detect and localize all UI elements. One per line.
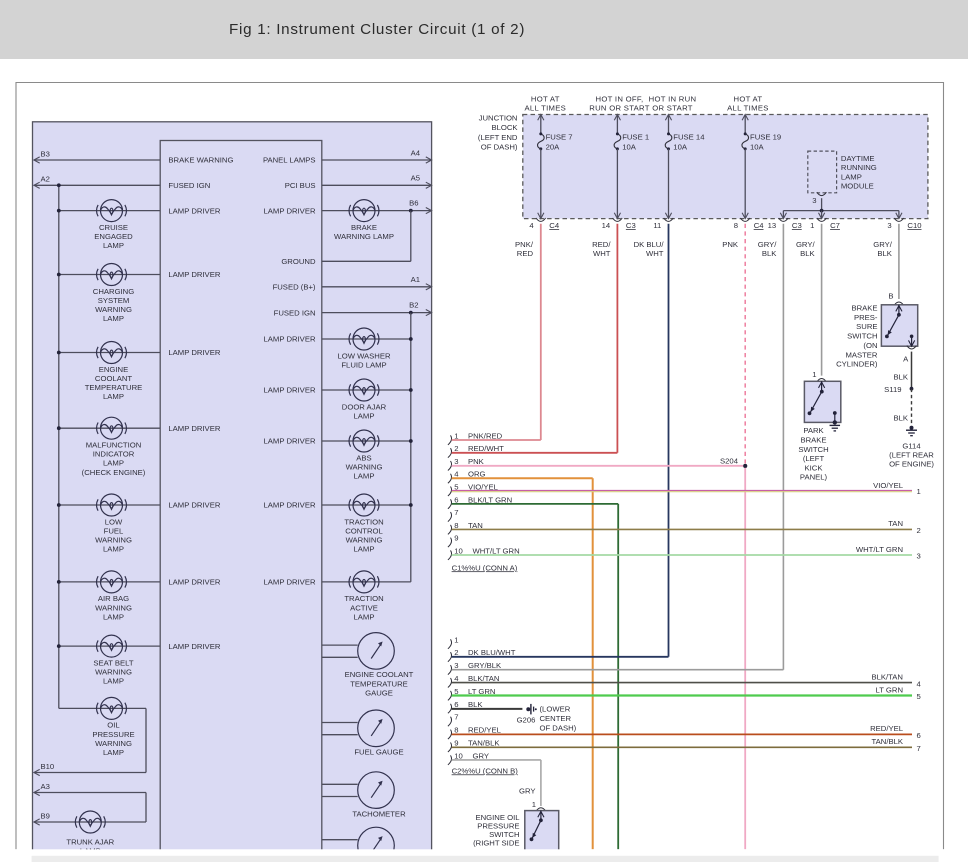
lamp LOW WASHER FLUID LAMP: [349, 328, 379, 350]
junction A2 bus: [57, 183, 61, 187]
svg-text:SWITCH: SWITCH: [847, 332, 877, 341]
C1 pin 3 PNK: [448, 461, 452, 471]
svg-text:GRY/: GRY/: [758, 240, 778, 249]
svg-text:HOT IN OFF,: HOT IN OFF,: [595, 94, 643, 103]
svg-text:G114: G114: [902, 441, 921, 450]
lamp ABS WARNING LAMP: [349, 430, 379, 452]
svg-text:LAMP DRIVER: LAMP DRIVER: [168, 642, 220, 651]
svg-text:3: 3: [454, 661, 458, 670]
wire to LOW WASHER FLUID LAMP: [322, 338, 411, 340]
svg-text:PANEL): PANEL): [800, 473, 828, 482]
svg-text:4: 4: [529, 221, 534, 230]
svg-text:1: 1: [454, 635, 458, 644]
daytime running lamp module: [808, 151, 837, 193]
wire A2 fused ign: [34, 184, 160, 186]
svg-text:6: 6: [454, 700, 458, 709]
connector pin 11: [664, 218, 674, 221]
svg-text:A3: A3: [41, 782, 50, 791]
svg-text:OF DASH): OF DASH): [540, 723, 577, 732]
svg-text:DK BLU/WHT: DK BLU/WHT: [468, 648, 516, 657]
wire to ENGINE COOLANT TEMPERATURE LAMP: [59, 352, 160, 354]
wire B3 brake warning: [34, 159, 160, 161]
right lamp bus: [410, 313, 412, 582]
svg-text:7: 7: [917, 744, 921, 753]
svg-text:CRUISE: CRUISE: [99, 223, 128, 232]
svg-text:LAMP DRIVER: LAMP DRIVER: [264, 386, 316, 395]
svg-text:LAMP DRIVER: LAMP DRIVER: [168, 424, 220, 433]
wire C2-3 GRY/BLK: [452, 669, 784, 671]
lamp MALFUNCTION INDICATOR LAMP (CHECK ENGINE): [97, 417, 127, 439]
svg-text:ACTIVE: ACTIVE: [350, 603, 378, 612]
wire C1-4 ORG: [452, 477, 593, 479]
svg-text:FUSE 19: FUSE 19: [750, 133, 781, 142]
svg-text:LAMP: LAMP: [354, 411, 375, 420]
wire to TRACTION ACTIVE LAMP: [322, 581, 411, 583]
svg-text:LAMP DRIVER: LAMP DRIVER: [264, 335, 316, 344]
wire GRY drop to oil pressure switch: [540, 760, 542, 806]
svg-text:WHT: WHT: [646, 249, 664, 258]
svg-text:RED/: RED/: [592, 240, 611, 249]
svg-text:9: 9: [454, 739, 458, 748]
wire C2-8 RED/YEL: [452, 733, 912, 735]
svg-text:C7: C7: [830, 221, 840, 230]
svg-text:6: 6: [917, 731, 921, 740]
svg-text:BLOCK: BLOCK: [491, 123, 518, 132]
C1 pin 4 ORG: [448, 474, 452, 484]
svg-text:LAMP: LAMP: [103, 612, 124, 621]
svg-text:BLK/TAN: BLK/TAN: [468, 674, 499, 683]
connector pin 14: [613, 218, 623, 221]
fuse FUSE 19 10A: [744, 115, 746, 134]
svg-text:8: 8: [454, 726, 458, 735]
wire C2-2 DK BLU/WHT: [452, 656, 669, 658]
svg-text:WARNING LAMP: WARNING LAMP: [334, 232, 394, 241]
svg-text:RUNNING: RUNNING: [841, 163, 877, 172]
svg-text:HOT AT: HOT AT: [733, 94, 762, 103]
svg-text:ENGINE COOLANT: ENGINE COOLANT: [345, 670, 414, 679]
svg-text:LAMP DRIVER: LAMP DRIVER: [168, 348, 220, 357]
wire C2-4 BLK/TAN: [452, 682, 912, 684]
svg-text:HOT IN RUN: HOT IN RUN: [649, 94, 697, 103]
C2 pin 3 GRY/BLK: [448, 665, 452, 675]
wire A5 pci bus: [322, 184, 432, 186]
svg-text:C1%%U (CONN A): C1%%U (CONN A): [452, 563, 518, 572]
svg-text:1: 1: [454, 431, 458, 440]
C2 pin 8 RED/YEL: [448, 730, 452, 740]
svg-text:PANEL LAMPS: PANEL LAMPS: [263, 156, 316, 165]
wire C2-6 BLK to G206: [452, 708, 523, 710]
svg-text:TRACTION: TRACTION: [344, 517, 383, 526]
wire to TRACTION CONTROL WARNING LAMP: [322, 504, 411, 506]
wire C1-3 PNK: [452, 465, 746, 467]
wire C1-10 WHT/LT GRN: [452, 554, 912, 556]
lamp LOW FUEL WARNING LAMP: [97, 494, 127, 516]
svg-text:PCI BUS: PCI BUS: [285, 181, 316, 190]
park brake contact arm: [821, 381, 823, 391]
svg-text:10A: 10A: [673, 143, 688, 152]
C1 pin 7: [448, 512, 452, 522]
DRL splitter wire: [783, 210, 899, 212]
C1 pin 10 WHT/LT GRN: [448, 550, 452, 560]
svg-text:1: 1: [532, 800, 536, 809]
svg-text:OIL: OIL: [107, 721, 120, 730]
svg-text:G206: G206: [517, 715, 536, 724]
lamp TRACTION CONTROL WARNING LAMP: [349, 494, 379, 516]
svg-text:GRY/: GRY/: [873, 240, 893, 249]
C1 pin 8 TAN: [448, 525, 452, 535]
svg-text:LAMP DRIVER: LAMP DRIVER: [264, 501, 316, 510]
svg-text:A1: A1: [411, 275, 420, 284]
wire trunk lamp riser: [145, 793, 147, 823]
svg-text:7: 7: [454, 508, 458, 517]
wire oil pressure lamp row: [59, 707, 146, 709]
left bus wire: [58, 185, 60, 708]
wire C1-2 RED/WHT: [452, 452, 618, 454]
svg-text:RUN OR START: RUN OR START: [589, 104, 650, 113]
page bottom mask: [0, 849, 968, 862]
wire ground riser: [410, 211, 412, 262]
instrument cluster connector box: [160, 141, 322, 862]
wire C2-5 LT GRN: [452, 694, 912, 696]
svg-text:LAMP: LAMP: [354, 545, 375, 554]
svg-text:GRY/BLK: GRY/BLK: [468, 661, 502, 670]
lamp BRAKE WARNING LAMP: [349, 200, 379, 222]
svg-text:TRUNK AJAR: TRUNK AJAR: [66, 837, 114, 846]
wires to ENGINE COOLANT: [322, 644, 358, 646]
svg-text:PRES-: PRES-: [854, 313, 878, 322]
svg-text:LAMP: LAMP: [103, 748, 124, 757]
wires to gauge 4: [322, 839, 358, 841]
DRL branch pin 13 C3: [782, 211, 784, 219]
DRL branch pin 3 C10: [898, 211, 900, 219]
svg-text:PNK: PNK: [722, 240, 739, 249]
svg-text:B: B: [888, 291, 893, 300]
wire C2-9 TAN/BLK: [452, 746, 912, 748]
svg-text:TEMPERATURE: TEMPERATURE: [350, 679, 408, 688]
svg-text:GROUND: GROUND: [281, 257, 316, 266]
svg-text:(RIGHT SIDE: (RIGHT SIDE: [473, 839, 519, 848]
svg-text:CHARGING: CHARGING: [93, 287, 134, 296]
wire C2-10 GRY: [452, 759, 541, 761]
svg-text:WARNING: WARNING: [95, 305, 132, 314]
svg-text:BRAKE WARNING: BRAKE WARNING: [168, 156, 233, 165]
svg-text:LOW WASHER: LOW WASHER: [337, 351, 391, 360]
svg-text:C2%%U (CONN B): C2%%U (CONN B): [452, 766, 519, 775]
svg-text:OF DASH): OF DASH): [481, 142, 518, 151]
svg-text:PARK: PARK: [803, 426, 824, 435]
svg-text:WARNING: WARNING: [95, 668, 132, 677]
svg-text:10A: 10A: [750, 143, 765, 152]
svg-text:SURE: SURE: [856, 322, 877, 331]
svg-text:3: 3: [812, 196, 816, 205]
junction block box: [523, 115, 928, 219]
svg-text:WARNING: WARNING: [95, 536, 132, 545]
lamp CHARGING SYSTEM WARNING LAMP: [97, 264, 127, 286]
svg-text:(CHECK ENGINE): (CHECK ENGINE): [82, 468, 146, 477]
svg-text:OF ENGINE): OF ENGINE): [889, 460, 934, 469]
wire to CRUISE ENGAGED LAMP: [59, 210, 160, 212]
svg-text:FUSED (B+): FUSED (B+): [273, 283, 316, 292]
C1 pin 9: [448, 538, 452, 548]
gauge ENGINE COOLANT: [358, 633, 395, 670]
gauge gauge 4: [358, 827, 395, 862]
svg-text:S204: S204: [720, 457, 739, 466]
svg-text:DK BLU/: DK BLU/: [634, 240, 665, 249]
wire to SEAT BELT WARNING LAMP: [59, 645, 160, 647]
svg-text:BLK: BLK: [893, 373, 908, 382]
fuse FUSE 14 10A: [668, 115, 670, 134]
wire lamp to B10: [145, 708, 147, 772]
svg-text:WHT/LT GRN: WHT/LT GRN: [856, 545, 903, 554]
wire to MALFUNCTION INDICATOR LAMP (CHECK ENGINE): [59, 427, 160, 429]
svg-text:MASTER: MASTER: [845, 350, 877, 359]
svg-text:14: 14: [602, 221, 611, 230]
svg-text:2: 2: [917, 526, 921, 535]
C1 pin 6 BLK/LT GRN: [448, 499, 452, 509]
wire A4 panel lamps: [322, 159, 432, 161]
junction B6: [409, 209, 413, 213]
svg-text:ALL TIMES: ALL TIMES: [525, 104, 567, 113]
C2 pin 9 TAN/BLK: [448, 743, 452, 753]
lamp DOOR AJAR LAMP: [349, 379, 379, 401]
wire C1-1 PNK/RED: [452, 439, 541, 441]
svg-text:TAN/BLK: TAN/BLK: [468, 739, 500, 748]
svg-text:FUSED IGN: FUSED IGN: [274, 308, 316, 317]
svg-text:B3: B3: [41, 149, 50, 158]
svg-text:(LOWER: (LOWER: [540, 705, 571, 714]
svg-text:1: 1: [812, 370, 816, 379]
svg-text:DOOR AJAR: DOOR AJAR: [342, 402, 387, 411]
C2 pin 10 GRY: [448, 755, 452, 765]
svg-text:6: 6: [454, 495, 458, 504]
wire to ABS WARNING LAMP: [322, 440, 411, 442]
C2 pin 4 BLK/TAN: [448, 678, 452, 688]
C2 pin 6 BLK: [448, 704, 452, 714]
svg-text:DAYTIME: DAYTIME: [841, 154, 875, 163]
svg-text:CENTER: CENTER: [540, 714, 572, 723]
svg-text:C10: C10: [907, 221, 921, 230]
svg-text:RED: RED: [517, 249, 534, 258]
svg-text:ENGINE: ENGINE: [99, 365, 128, 374]
svg-text:B6: B6: [409, 198, 418, 207]
svg-text:(LEFT: (LEFT: [803, 454, 825, 463]
svg-text:FUSE 7: FUSE 7: [546, 133, 573, 142]
svg-text:BRAKE: BRAKE: [800, 436, 826, 445]
svg-text:WARNING: WARNING: [95, 603, 132, 612]
svg-text:11: 11: [653, 221, 661, 230]
svg-text:CYLINDER): CYLINDER): [836, 360, 878, 369]
svg-text:BRAKE: BRAKE: [351, 223, 377, 232]
svg-text:LAMP DRIVER: LAMP DRIVER: [264, 206, 316, 215]
svg-text:LT GRN: LT GRN: [876, 685, 903, 694]
svg-text:CONTROL: CONTROL: [345, 526, 383, 535]
junction B2: [409, 311, 413, 315]
wires to TACHOMETER: [322, 783, 358, 785]
svg-text:BLK: BLK: [762, 249, 777, 258]
svg-text:PNK/: PNK/: [515, 240, 534, 249]
svg-text:SEAT BELT: SEAT BELT: [93, 658, 133, 667]
svg-text:7: 7: [454, 713, 458, 722]
svg-text:3: 3: [454, 457, 458, 466]
park brake ground contact: [833, 411, 837, 415]
wire C1-8 TAN: [452, 528, 912, 530]
gauge TACHOMETER: [358, 772, 395, 809]
svg-text:HOT AT: HOT AT: [531, 94, 560, 103]
svg-text:INDICATOR: INDICATOR: [93, 450, 135, 459]
wire to DOOR AJAR LAMP: [322, 389, 411, 391]
svg-text:PRESSURE: PRESSURE: [92, 730, 134, 739]
instrument cluster outer block: [33, 122, 432, 862]
svg-text:(ON: (ON: [863, 341, 877, 350]
wires to FUEL GAUGE: [322, 722, 358, 724]
wire DRL output: [821, 198, 823, 210]
svg-text:LAMP: LAMP: [103, 459, 124, 468]
svg-text:10A: 10A: [622, 143, 637, 152]
svg-text:5: 5: [917, 692, 921, 701]
wire B2 fused ign: [322, 312, 432, 314]
svg-text:A5: A5: [411, 174, 420, 183]
wire to LOW FUEL WARNING LAMP: [59, 504, 160, 506]
C2 pin 5 LT GRN: [448, 691, 452, 701]
svg-text:C3: C3: [792, 221, 802, 230]
svg-text:LAMP DRIVER: LAMP DRIVER: [168, 501, 220, 510]
ground G206: [526, 707, 530, 711]
wire to AIR BAG WARNING LAMP: [59, 581, 160, 583]
svg-text:TACHOMETER: TACHOMETER: [352, 809, 406, 818]
svg-text:FUSE 14: FUSE 14: [673, 133, 705, 142]
svg-text:8: 8: [454, 521, 458, 530]
svg-text:PNK: PNK: [468, 457, 485, 466]
svg-text:GRY: GRY: [473, 751, 490, 760]
svg-text:A: A: [903, 355, 909, 364]
svg-text:LAMP DRIVER: LAMP DRIVER: [264, 437, 316, 446]
svg-text:20A: 20A: [546, 143, 561, 152]
svg-text:B9: B9: [41, 811, 50, 820]
DRL branch pin 1 C7: [821, 211, 823, 219]
svg-text:1: 1: [810, 221, 814, 230]
fuse FUSE 1 10A: [616, 115, 618, 134]
wire PNK below S204: [744, 466, 746, 849]
svg-text:GAUGE: GAUGE: [365, 688, 393, 697]
svg-text:4: 4: [917, 679, 922, 688]
svg-text:A2: A2: [41, 175, 50, 184]
svg-text:LAMP: LAMP: [841, 172, 862, 181]
svg-text:FLUID LAMP: FLUID LAMP: [341, 360, 386, 369]
svg-text:FUEL: FUEL: [104, 526, 124, 535]
svg-text:ABS: ABS: [356, 453, 371, 462]
svg-text:A4: A4: [411, 148, 421, 157]
connector pin 8: [740, 218, 750, 221]
svg-text:(LEFT REAR: (LEFT REAR: [889, 451, 934, 460]
svg-text:TAN: TAN: [468, 521, 483, 530]
svg-text:LAMP: LAMP: [354, 612, 375, 621]
svg-text:RED/YEL: RED/YEL: [468, 726, 502, 735]
svg-text:LAMP DRIVER: LAMP DRIVER: [168, 270, 220, 279]
svg-text:8: 8: [734, 221, 738, 230]
svg-text:3: 3: [917, 552, 921, 561]
wire ORG riser: [592, 478, 594, 849]
svg-text:BRAKE: BRAKE: [851, 304, 877, 313]
svg-text:LAMP: LAMP: [354, 472, 375, 481]
svg-text:B2: B2: [409, 300, 418, 309]
lamp AIR BAG WARNING LAMP: [97, 571, 127, 593]
svg-text:JUNCTION: JUNCTION: [479, 114, 518, 123]
svg-text:SYSTEM: SYSTEM: [98, 296, 130, 305]
svg-text:13: 13: [768, 221, 777, 230]
C1 pin 2 RED/WHT: [448, 448, 452, 458]
svg-text:MALFUNCTION: MALFUNCTION: [86, 441, 142, 450]
svg-text:2: 2: [454, 444, 458, 453]
svg-text:WARNING: WARNING: [95, 739, 132, 748]
svg-text:10: 10: [454, 751, 463, 760]
svg-text:LAMP DRIVER: LAMP DRIVER: [264, 578, 316, 587]
connector pin 4: [536, 218, 546, 221]
svg-text:10: 10: [454, 546, 463, 555]
svg-text:2: 2: [454, 648, 458, 657]
svg-text:MODULE: MODULE: [841, 182, 874, 191]
BPS output A: [910, 335, 914, 339]
svg-text:WARNING: WARNING: [346, 536, 383, 545]
svg-text:WHT: WHT: [593, 249, 611, 258]
svg-text:WARNING: WARNING: [346, 462, 383, 471]
svg-text:1: 1: [917, 487, 921, 496]
wire C1-5 VIO/YEL: [452, 490, 912, 492]
svg-text:LAMP DRIVER: LAMP DRIVER: [168, 578, 220, 587]
svg-text:KICK: KICK: [805, 463, 824, 472]
oil pressure switch contact arm: [540, 811, 542, 821]
svg-text:BLK: BLK: [468, 700, 483, 709]
svg-text:WHT/LT GRN: WHT/LT GRN: [473, 546, 520, 555]
svg-text:LAMP: LAMP: [103, 314, 124, 323]
svg-text:GRY: GRY: [519, 786, 536, 795]
svg-text:LAMP: LAMP: [103, 241, 124, 250]
lamp TRACTION ACTIVE LAMP: [349, 571, 379, 593]
svg-text:FUEL GAUGE: FUEL GAUGE: [354, 748, 403, 757]
C2 pin 1: [448, 639, 452, 649]
svg-text:3: 3: [887, 221, 891, 230]
lamp ENGINE COOLANT TEMPERATURE LAMP: [97, 342, 127, 364]
C2 pin 7: [448, 717, 452, 727]
svg-text:BLK: BLK: [800, 249, 815, 258]
svg-text:LAMP: LAMP: [103, 392, 124, 401]
gauge FUEL GAUGE: [358, 710, 395, 747]
svg-text:LOW: LOW: [105, 517, 123, 526]
svg-text:OR START: OR START: [652, 104, 693, 113]
svg-text:C4: C4: [549, 221, 560, 230]
wire A3: [34, 792, 146, 794]
svg-text:RED/YEL: RED/YEL: [870, 724, 904, 733]
title bar: [0, 0, 968, 59]
svg-text:9: 9: [454, 534, 458, 543]
wire C1-6 BLK/LT GRN: [452, 503, 619, 505]
svg-text:ENGAGED: ENGAGED: [94, 232, 133, 241]
wire BLK/LT GRN riser: [617, 504, 619, 849]
svg-text:TAN: TAN: [888, 519, 903, 528]
C1 pin 1 PNK/RED: [448, 435, 452, 445]
wire to CHARGING SYSTEM WARNING LAMP: [59, 274, 160, 276]
svg-text:RED/WHT: RED/WHT: [468, 444, 504, 453]
wire B6 lamp driver: [322, 210, 432, 212]
svg-text:LAMP: LAMP: [103, 545, 124, 554]
lamp OIL PRESSURE WARNING LAMP: [97, 697, 127, 719]
wire GROUND: [322, 260, 411, 262]
wire A1 fused B+: [322, 286, 432, 288]
svg-text:B10: B10: [41, 762, 55, 771]
svg-text:BLK/LT GRN: BLK/LT GRN: [468, 495, 512, 504]
BPS contact arm: [898, 305, 900, 315]
lamp CRUISE ENGAGED LAMP: [97, 200, 127, 222]
lamp TRUNK AJAR LAMP: [75, 811, 105, 833]
